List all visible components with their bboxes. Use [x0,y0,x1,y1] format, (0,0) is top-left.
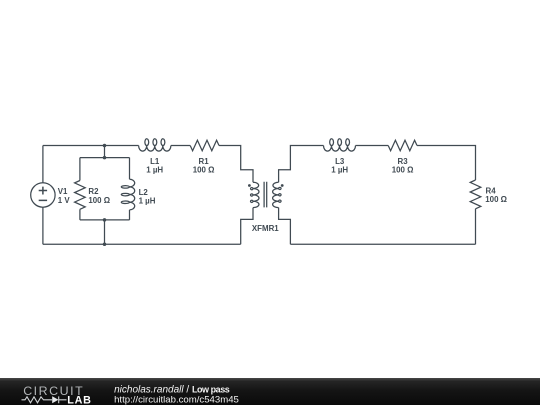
node junction top rail [103,144,107,148]
svg-text:100 Ω: 100 Ω [193,165,215,174]
svg-text:100 Ω: 100 Ω [485,195,507,204]
wire top between L1 and R1 [171,145,190,147]
node junction tank bottom [103,218,107,222]
svg-text:1 V: 1 V [58,196,71,205]
wire R2 bottom lead [79,209,81,220]
resistor R3 [388,140,417,150]
resistor R2 [75,181,86,210]
wire top between L3 and R3 [356,145,389,147]
svg-text:R4: R4 [486,186,497,195]
inductor L2 [121,179,134,210]
svg-text:1 µH: 1 µH [139,196,156,205]
svg-text:100 Ω: 100 Ω [392,165,414,174]
svg-text:http://circuitlab.com/c543m45: http://circuitlab.com/c543m45 [114,395,239,405]
wire transformer primary bottom [241,208,253,245]
wire L2 bottom lead [129,210,131,220]
wire L2 top lead [129,158,131,180]
voltage source V1 [31,183,55,207]
wire left tank top connection [104,146,106,158]
wire R4 bottom lead [475,209,477,245]
svg-text:1 µH: 1 µH [146,165,163,174]
wire bottom-right horizontal [290,243,475,245]
CircuitLab logo diode [52,396,58,403]
wire transformer secondary top [279,146,324,183]
wire top from R1 down to transformer primary [219,146,253,183]
node junction bottom rail [103,243,107,247]
CircuitLab logo resistor-wire symbol [22,396,67,403]
wire top-left horizontal from V1 to L1 [43,145,139,147]
wire top from R3 to right edge [417,146,476,181]
inductor L1 [139,139,171,151]
svg-text:100 Ω: 100 Ω [88,196,110,205]
wire V1 top lead [42,146,44,183]
resistor R4 [470,180,481,209]
svg-text:1 µH: 1 µH [331,165,348,174]
wire R2 top lead [79,158,81,181]
svg-text:XFMR1: XFMR1 [252,224,279,233]
transformer XFMR1 secondary polarity dot [281,184,284,187]
transformer XFMR1 primary polarity dot [248,184,251,187]
transformer XFMR1 primary winding [251,182,259,207]
footer bar [0,378,540,405]
wire bottom-left horizontal [43,243,241,245]
inductor L3 [324,139,356,151]
wire tank top rail [80,157,130,159]
wire tank bottom connection [104,220,106,244]
resistor R1 [190,140,219,150]
wire V1 bottom lead [42,207,44,244]
node junction tank top [103,156,107,160]
transformer XFMR1 secondary winding [273,182,281,207]
wire transformer secondary bottom [279,208,291,245]
transformer XFMR1 core [264,182,267,208]
svg-text:LAB: LAB [67,394,92,405]
wire tank bottom rail [80,219,130,221]
